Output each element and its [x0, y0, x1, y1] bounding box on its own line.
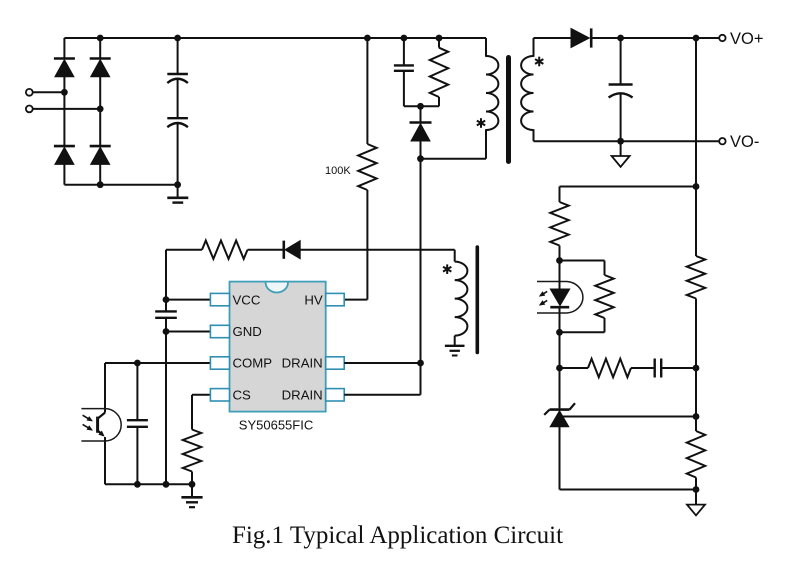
wire opto parallel top: [560, 261, 605, 276]
svg-text:VCC: VCC: [233, 292, 261, 307]
wire feedback left corner down: [559, 187, 561, 203]
resistor 100K: [358, 144, 376, 190]
wire TL431 anode down: [559, 427, 561, 490]
wire bulk cap column: [177, 38, 179, 185]
wire CS pin lead: [192, 395, 210, 430]
wire primary bottom lead: [485, 129, 487, 159]
node bulk cap bottom: [174, 181, 181, 188]
ground (aux winding, earth): [445, 346, 465, 356]
wire HV pin lead: [344, 299, 367, 301]
transistor opto phototransistor: [98, 413, 105, 437]
wire secondary bottom lead: [533, 129, 535, 141]
wire AC line to bridge left: [33, 91, 64, 93]
wire snubber cap leads: [403, 38, 405, 106]
opto light arrow 2: [83, 424, 93, 430]
svg-text:Fig.1 Typical Application Circ: Fig.1 Typical Application Circuit: [232, 522, 563, 549]
wire drain node to primary bottom: [421, 158, 487, 160]
resistor opto parallel: [595, 275, 613, 318]
wire COMP cap leads: [136, 363, 138, 484]
capacitor output filter: [609, 85, 633, 98]
node CS ground: [189, 481, 196, 488]
wire feedback top link: [560, 186, 697, 188]
wire RC middle: [631, 367, 655, 369]
resistor snubber clamp: [430, 48, 448, 97]
node feedback divider top: [693, 35, 700, 42]
node snubber cap top: [401, 35, 408, 42]
resistor divider upper: [687, 256, 705, 299]
wire divider segments: [695, 187, 697, 432]
bridge diode D3 (lower left): [54, 146, 75, 164]
wire GND pin lead: [166, 331, 210, 333]
svg-text:CS: CS: [233, 388, 252, 403]
label U1 part number SY50655FIC: [239, 418, 313, 433]
wire RC lead right: [661, 367, 696, 369]
wire bottom bridge rail: [64, 184, 177, 186]
wire VCC line left corner: [166, 249, 202, 251]
terminal VO+: [719, 35, 725, 41]
wire secondary to output diode: [534, 37, 572, 39]
wire DRAIN2 pin lead: [344, 394, 420, 396]
label VO-: [730, 133, 759, 151]
capacitor bulk C2 (lower): [167, 118, 188, 127]
wire opto collector to COMP: [104, 363, 106, 413]
node divider bottom: [693, 486, 700, 493]
node secondary dot mark: [535, 57, 543, 67]
wire divider lower lead: [695, 478, 697, 490]
svg-text:COMP: COMP: [233, 356, 273, 371]
svg-text:SY50655FIC: SY50655FIC: [239, 418, 313, 433]
wire output cap leads: [620, 38, 622, 141]
svg-text:DRAIN: DRAIN: [282, 356, 323, 371]
wire opto feed lead: [559, 246, 561, 261]
wire 100K to top rail: [366, 38, 368, 144]
ground (bridge return, earth): [167, 185, 188, 203]
transformer core (main): [506, 58, 511, 162]
opto LED emission arrow 1: [539, 291, 547, 296]
wire DRAIN1 pin lead: [344, 362, 420, 364]
node aux dot mark: [443, 264, 451, 274]
node 100K top: [364, 35, 371, 42]
diode output rectifier: [571, 28, 591, 47]
wire snubber diode leads: [420, 106, 422, 158]
node primary dot mark: [477, 118, 485, 128]
node VCC pin tap: [163, 296, 170, 303]
node GND rail bottom: [163, 481, 170, 488]
optocoupler phototransistor package: [81, 409, 121, 441]
node snubber diode cathode: [417, 103, 424, 110]
op-amp U1 SY50655FIC body: [230, 282, 326, 412]
node bridge left AC tap: [61, 89, 68, 96]
node COMP cap bottom: [134, 481, 141, 488]
capacitor VCC decoupling: [155, 311, 177, 317]
wire aux bottom lead: [454, 336, 456, 346]
node opto anode: [556, 257, 563, 264]
capacitor compensation RC: [655, 359, 662, 378]
svg-text:VO+: VO+: [730, 30, 763, 48]
wire snubber bottom join: [404, 105, 439, 107]
node RC to divider: [693, 365, 700, 372]
node bridge top right: [97, 35, 104, 42]
svg-text:GND: GND: [233, 324, 262, 339]
node bridge bottom right: [97, 181, 104, 188]
optocoupler LED package: [537, 282, 583, 314]
wire GND vertical lower: [165, 318, 167, 485]
svg-text:DRAIN: DRAIN: [282, 388, 323, 403]
wire TL431 anode to divider bottom: [560, 489, 697, 491]
transformer auxiliary winding: [455, 262, 468, 336]
wire CS res bottom: [191, 472, 193, 485]
opto light arrow 1: [83, 415, 93, 421]
node TL431 ref tap: [693, 413, 700, 420]
ground (secondary, signal): [612, 141, 630, 167]
node DRAIN junction: [417, 360, 424, 367]
transformer primary winding: [486, 56, 498, 130]
node bulk cap top: [174, 35, 181, 42]
resistor CS sense: [183, 430, 201, 472]
diode VCC charge (points left): [284, 241, 300, 259]
wire VO- rail: [534, 140, 720, 142]
label VO+: [730, 30, 763, 48]
node switch drain junction: [417, 155, 424, 162]
resistor opto feed (upper left): [550, 202, 568, 246]
ground (feedback, signal): [687, 490, 705, 516]
bridge diode D4 (lower right): [90, 146, 111, 164]
shunt regulator TL431 (zener): [544, 403, 575, 427]
U1 pins: [210, 293, 344, 401]
AC input terminal (line): [26, 89, 33, 96]
node compensation RC left: [556, 365, 563, 372]
transformer secondary winding: [521, 56, 533, 130]
capacitor COMP compensation: [127, 420, 148, 427]
wire bridge right column: [99, 38, 101, 185]
U1 pin labels: [233, 292, 323, 402]
node output cap top: [617, 35, 624, 42]
wire VO+ rail: [592, 37, 719, 39]
wire VCC vertical upper: [165, 250, 167, 312]
opto LED emission arrow 2: [539, 300, 547, 305]
wire VCC pin lead: [166, 299, 210, 301]
resistor divider lower: [687, 431, 705, 478]
bridge diode D2 (upper right): [90, 59, 111, 77]
wire aux top corner: [454, 250, 456, 262]
svg-text:VO-: VO-: [730, 133, 759, 151]
node snubber res top: [436, 35, 443, 42]
wire TL431 cathode down: [559, 368, 561, 408]
AC input terminal (neutral): [26, 106, 33, 113]
wire VCC diode to aux: [300, 249, 455, 251]
wire snubber res leads: [438, 38, 440, 106]
label figure caption: [232, 522, 563, 549]
wire VCC res to diode: [248, 249, 283, 251]
wire opto emitter down: [104, 437, 106, 484]
node opto cathode: [556, 329, 563, 336]
resistor compensation RC: [588, 359, 631, 377]
wire opto cathode down: [559, 332, 561, 368]
wire TL431 ref line: [562, 416, 696, 418]
node COMP cap tap: [134, 360, 141, 367]
wire opto parallel bottom: [560, 318, 605, 332]
resistor VCC charge: [202, 241, 248, 259]
diode snubber clamp (cathode up): [410, 123, 432, 142]
optocoupler LED (emitting diode): [550, 261, 569, 333]
transformer core (aux): [475, 247, 479, 353]
svg-text:100K: 100K: [325, 165, 351, 177]
wire COMP rail: [105, 362, 210, 364]
wire 100K to HV corner: [366, 190, 368, 300]
wire secondary top lead: [533, 38, 535, 57]
bridge diode D1 (upper left): [54, 59, 75, 77]
ground (primary side, earth): [181, 484, 202, 507]
wire top DC bus rail: [64, 37, 486, 39]
node GND pin tap: [163, 328, 170, 335]
wire divider from VO+: [695, 38, 697, 187]
terminal VO-: [719, 138, 725, 144]
wire AC neutral to bridge right: [33, 108, 100, 110]
capacitor bulk C1 (upper): [167, 74, 188, 83]
node bridge right AC tap: [97, 106, 104, 113]
wire drain vertical bus: [420, 159, 422, 395]
svg-text:HV: HV: [304, 292, 323, 307]
wire RC lead left: [560, 367, 589, 369]
node output cap bottom: [617, 138, 624, 145]
wire primary top lead: [485, 38, 487, 57]
capacitor snubber clamp: [394, 65, 414, 70]
node feedback tap upper: [693, 183, 700, 190]
wire bridge left column: [63, 38, 65, 185]
label 100K value: [325, 165, 351, 177]
wire primary-side bottom rail: [105, 483, 192, 485]
